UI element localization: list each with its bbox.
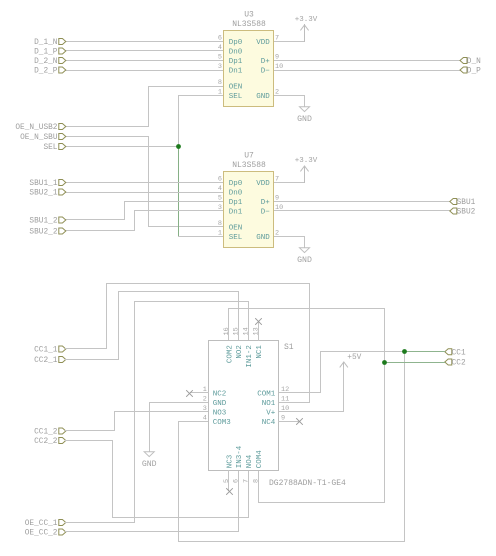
wire CC2_1 to S1 NO2 (pin 15) [66, 292, 239, 360]
svg-text:U3: U3 [244, 11, 254, 20]
junction node CC1 [402, 349, 407, 354]
svg-text:D_2_P: D_2_P [34, 68, 58, 76]
svg-text:8: 8 [218, 79, 222, 87]
svg-text:GND: GND [297, 115, 312, 124]
wire U3 D+ to D_N [274, 60, 461, 62]
S1 pin 9 NC4 stub (no connect) [279, 421, 299, 423]
svg-text:Dn1: Dn1 [229, 68, 243, 76]
svg-text:D−: D− [261, 68, 271, 76]
svg-text:NC4: NC4 [262, 419, 276, 427]
S1 pin 5 NC3 stub (no connect) [228, 471, 230, 491]
svg-text:NC1: NC1 [256, 345, 264, 359]
svg-text:IN3-4: IN3-4 [236, 445, 244, 468]
global label SBU1_2 [29, 217, 65, 226]
svg-text:SBU1_2: SBU1_2 [29, 218, 57, 226]
svg-text:S1: S1 [284, 343, 294, 352]
svg-text:2: 2 [275, 230, 279, 238]
svg-text:GND: GND [297, 256, 312, 265]
svg-text:CC1_1: CC1_1 [34, 347, 58, 355]
svg-text:12: 12 [281, 386, 289, 394]
global label CC2_1 [34, 357, 66, 366]
svg-text:15: 15 [233, 327, 241, 335]
svg-text:3: 3 [218, 204, 222, 212]
no-connect X on S1 pin 5 [227, 489, 233, 495]
svg-text:10: 10 [281, 405, 289, 413]
svg-text:OEN: OEN [229, 84, 243, 92]
svg-text:8: 8 [253, 479, 261, 483]
wire S1 V+ pin 10 to +5V [279, 367, 344, 412]
svg-text:3: 3 [203, 405, 207, 413]
global label D_2_P [34, 67, 66, 76]
wire OE_N_USB2 to U3 OEN [66, 87, 224, 127]
wire OE_N_SBU to U7 OEN [66, 137, 224, 227]
svg-text:D−: D− [261, 209, 271, 217]
global label SBU1_1 [29, 180, 65, 189]
svg-text:SEL: SEL [229, 93, 243, 101]
svg-text:Dp0: Dp0 [229, 180, 243, 188]
svg-text:4: 4 [203, 415, 207, 423]
svg-text:5: 5 [218, 54, 222, 62]
svg-text:3: 3 [218, 63, 222, 71]
wire U7 D+ to SBU1 [274, 201, 450, 203]
global label D_1_P [34, 48, 66, 57]
svg-text:SBU2_1: SBU2_1 [29, 190, 57, 198]
global label OE_CC_1 [25, 520, 66, 529]
wire SBU1_2 to U7 Dp1 [66, 202, 224, 220]
ground GND (U7) [297, 248, 312, 265]
global label SBU2 [450, 208, 476, 217]
junction SEL node [176, 144, 181, 149]
svg-text:9: 9 [275, 54, 279, 62]
svg-text:+3.3V: +3.3V [295, 157, 318, 165]
svg-text:COM2: COM2 [227, 345, 235, 363]
op-amp-style IC U7 NL3S588 body [224, 172, 274, 248]
wire D_1_N to U3 Dp0 [66, 41, 224, 43]
wire U7 GND pin to ground [274, 237, 305, 248]
svg-text:Dn1: Dn1 [229, 209, 243, 217]
wire U3 D- to D_P [274, 70, 461, 72]
svg-text:CC1: CC1 [452, 350, 466, 358]
global label OE_N_USB2 [15, 124, 65, 133]
global label D_N [460, 58, 481, 67]
wire SBU1_1 to U7 Dp0 [66, 182, 224, 184]
svg-text:Dp1: Dp1 [229, 58, 243, 66]
svg-text:SBU2: SBU2 [457, 209, 476, 217]
global label OE_N_SBU [20, 134, 66, 143]
wire S1 COM3 (pin 4) to CC1 node [179, 352, 405, 542]
wire SBU2_2 to U7 Dn1 [66, 211, 224, 231]
global label D_1_N [34, 39, 66, 48]
svg-text:SEL: SEL [229, 234, 243, 242]
power +5V [340, 362, 348, 367]
global label OE_CC_2 [25, 529, 66, 538]
svg-text:SBU1_1: SBU1_1 [29, 180, 57, 188]
svg-text:10: 10 [275, 204, 283, 212]
wire D_1_P to U3 Dn0 [66, 50, 224, 52]
svg-text:Dn0: Dn0 [229, 190, 243, 198]
S1 pin 13 NC1 stub (no connect) [258, 323, 260, 341]
wire S1 GND pin 2 to ground [150, 403, 209, 452]
svg-text:2: 2 [203, 396, 207, 404]
wire CC2_2 to S1 NO4 (pin 7) [66, 441, 249, 518]
svg-text:VDD: VDD [256, 39, 270, 47]
svg-text:VDD: VDD [256, 180, 270, 188]
svg-text:OE_N_SBU: OE_N_SBU [20, 134, 58, 142]
svg-text:4: 4 [218, 44, 222, 52]
wire CC1 node to CC1 label (highlighted) [405, 351, 445, 353]
svg-text:D_N: D_N [467, 58, 481, 66]
svg-text:OEN: OEN [229, 225, 243, 233]
svg-text:9: 9 [275, 195, 279, 203]
global label CC2 [445, 359, 466, 368]
svg-text:7: 7 [275, 176, 279, 184]
svg-text:+5V: +5V [347, 354, 361, 362]
S1 pin 1 NC2 stub (no connect) [191, 392, 209, 394]
svg-text:CC2: CC2 [452, 360, 466, 368]
svg-text:D_1_P: D_1_P [34, 49, 58, 57]
wire OE_CC_1 to S1 IN1-2 (pin 14) [66, 302, 249, 523]
svg-text:D_1_N: D_1_N [34, 39, 58, 47]
svg-text:IN1-2: IN1-2 [246, 345, 254, 368]
svg-text:NL3S588: NL3S588 [232, 20, 266, 29]
wire S1 COM2 (pin 16) to CC2 node [229, 309, 385, 363]
svg-text:OE_N_USB2: OE_N_USB2 [15, 124, 57, 132]
svg-text:4: 4 [218, 185, 222, 193]
svg-text:7: 7 [243, 479, 251, 483]
svg-text:2: 2 [275, 89, 279, 97]
svg-text:NO1: NO1 [262, 400, 276, 408]
svg-text:Dn0: Dn0 [229, 49, 243, 57]
svg-text:D_P: D_P [467, 68, 481, 76]
svg-text:Dp0: Dp0 [229, 39, 243, 47]
svg-text:6: 6 [218, 35, 222, 43]
wire CC2 node to S1 COM4 (pin 8) [259, 363, 385, 503]
svg-text:11: 11 [281, 396, 289, 404]
svg-text:Dp1: Dp1 [229, 199, 243, 207]
junction node CC2 [382, 360, 387, 365]
svg-text:6: 6 [233, 479, 241, 483]
wire U3 VDD to +3.3V [274, 25, 305, 42]
wire S1 COM1 (pin 12) to CC1 node [279, 352, 405, 393]
wire OE_CC_2 to S1 IN3-4 (pin 6) [66, 471, 239, 532]
svg-text:GND: GND [213, 400, 227, 408]
svg-text:NL3S588: NL3S588 [232, 161, 266, 170]
power +3.3V (U7) [301, 166, 309, 183]
svg-text:V+: V+ [266, 410, 276, 418]
svg-text:DG2788ADN-T1-GE4: DG2788ADN-T1-GE4 [269, 479, 346, 488]
svg-text:CC2_2: CC2_2 [34, 438, 58, 446]
wire SBU2_1 to U7 Dn0 [66, 192, 224, 194]
wire D_2_P to U3 Dn1 [66, 70, 224, 72]
ground GND (S1) [142, 452, 157, 469]
global label SBU1 [450, 199, 476, 208]
wire D_2_N to U3 Dp1 [66, 60, 224, 62]
svg-text:5: 5 [223, 479, 231, 483]
svg-text:COM1: COM1 [257, 391, 276, 399]
no-connect X on S1 pin 13 [256, 319, 262, 325]
no-connect X on S1 pin 9 [297, 419, 303, 425]
svg-text:COM4: COM4 [256, 450, 264, 469]
svg-text:CC2_1: CC2_1 [34, 357, 58, 365]
wire SEL label to node [66, 146, 179, 148]
svg-text:13: 13 [253, 327, 261, 335]
svg-text:D+: D+ [261, 58, 271, 66]
svg-text:1: 1 [218, 230, 222, 238]
svg-text:COM3: COM3 [213, 419, 232, 427]
global label SBU2_2 [29, 228, 65, 237]
svg-text:D_2_N: D_2_N [34, 58, 58, 66]
wire into U7 SEL pin [179, 236, 224, 238]
svg-text:NO4: NO4 [246, 454, 254, 468]
wire CC1_2 to S1 NO3 (pin 3) [66, 412, 209, 431]
global label CC1_1 [34, 346, 66, 355]
svg-text:1: 1 [218, 89, 222, 97]
svg-text:NO3: NO3 [213, 410, 227, 418]
svg-text:8: 8 [218, 220, 222, 228]
no-connect X on S1 pin 1 [187, 391, 193, 397]
svg-text:NC3: NC3 [227, 454, 235, 468]
wire SEL net to U7 SEL (highlighted) [178, 147, 180, 237]
wire node to U3 SEL [179, 96, 224, 147]
svg-text:GND: GND [142, 460, 157, 469]
wire CC2 node to CC2 label (highlighted) [385, 362, 445, 364]
svg-text:SBU1: SBU1 [457, 199, 476, 207]
svg-text:OE_CC_2: OE_CC_2 [25, 530, 58, 538]
svg-text:GND: GND [256, 93, 270, 101]
svg-text:5: 5 [218, 195, 222, 203]
svg-text:7: 7 [275, 35, 279, 43]
global label D_2_N [34, 58, 66, 67]
svg-text:GND: GND [256, 234, 270, 242]
svg-text:NO2: NO2 [236, 345, 244, 359]
svg-text:SEL: SEL [43, 144, 57, 152]
svg-text:NC2: NC2 [213, 391, 227, 399]
wire U7 D- to SBU2 [274, 210, 450, 212]
svg-text:SBU2_2: SBU2_2 [29, 229, 57, 237]
svg-text:D+: D+ [261, 199, 271, 207]
wire U3 GND pin to ground [274, 96, 305, 107]
svg-text:10: 10 [275, 63, 283, 71]
wire CC1_1 to S1 NO1 (pin 11) [66, 284, 310, 403]
global label SBU2_1 [29, 189, 65, 198]
analog switch S1 DG2788 body [209, 341, 279, 471]
global label CC1 [445, 349, 466, 358]
svg-text:1: 1 [203, 386, 207, 394]
global label SEL [43, 144, 65, 153]
power +3.3V (U3) [301, 25, 309, 42]
svg-text:16: 16 [223, 327, 231, 335]
svg-text:CC1_2: CC1_2 [34, 429, 58, 437]
global label CC2_2 [34, 438, 66, 447]
svg-text:14: 14 [243, 327, 251, 335]
op-amp-style IC U3 NL3S588 body [224, 31, 274, 107]
svg-text:9: 9 [281, 415, 285, 423]
global label CC1_2 [34, 428, 66, 437]
ground GND (U3) [297, 107, 312, 124]
svg-text:+3.3V: +3.3V [295, 16, 318, 24]
wire U7 VDD to +3.3V [274, 167, 305, 183]
svg-text:U7: U7 [244, 152, 254, 161]
global label D_P [460, 67, 481, 76]
svg-text:6: 6 [218, 176, 222, 184]
svg-text:OE_CC_1: OE_CC_1 [25, 520, 58, 528]
